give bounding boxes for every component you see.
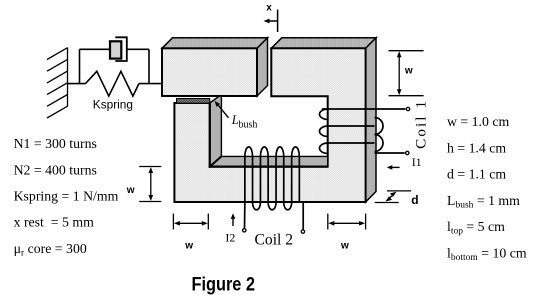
svg-text:w: w xyxy=(340,241,349,252)
svg-text:d: d xyxy=(411,193,418,207)
svg-text:Lbush = 1 mm: Lbush = 1 mm xyxy=(447,193,520,211)
svg-text:Kspring = 1 N/mm: Kspring = 1 N/mm xyxy=(14,189,119,204)
svg-text:lbottom = 10 cm: lbottom = 10 cm xyxy=(447,246,527,264)
svg-text:d = 1.1 cm: d = 1.1 cm xyxy=(447,167,506,182)
svg-text:Figure 2: Figure 2 xyxy=(192,275,256,296)
svg-text:N2 = 400 turns: N2 = 400 turns xyxy=(14,162,97,177)
svg-text:w: w xyxy=(404,66,413,77)
svg-text:I2: I2 xyxy=(225,231,235,245)
svg-text:x rest = 5 mm: x rest = 5 mm xyxy=(14,215,94,230)
svg-text:Coil 2: Coil 2 xyxy=(255,231,294,248)
svg-text:Kspring: Kspring xyxy=(93,100,133,112)
svg-text:x: x xyxy=(266,2,272,13)
svg-text:w = 1.0 cm: w = 1.0 cm xyxy=(447,114,509,129)
svg-text:ltop = 5 cm: ltop = 5 cm xyxy=(447,219,505,237)
svg-text:w: w xyxy=(184,241,193,252)
svg-text:w: w xyxy=(126,185,135,196)
svg-text:μr core = 300: μr core = 300 xyxy=(14,241,87,258)
svg-text:N1 = 300 turns: N1 = 300 turns xyxy=(14,136,97,151)
svg-text:h = 1.4 cm: h = 1.4 cm xyxy=(447,140,506,155)
svg-text:Coil 1: Coil 1 xyxy=(413,101,430,149)
svg-text:bush: bush xyxy=(239,119,258,130)
svg-text:I1: I1 xyxy=(412,155,422,169)
